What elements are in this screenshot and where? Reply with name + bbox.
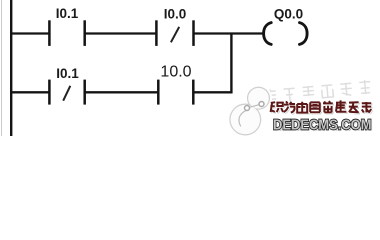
svg-text:I0.1: I0.1	[56, 66, 79, 81]
left power rail	[10, 0, 12, 136]
wire rung1 segment rail to I0.1	[10, 32, 49, 34]
label 10.0 rung2	[160, 63, 191, 80]
label I0.1 rung2	[56, 66, 79, 81]
contact I0.1 (NO) rung1	[49, 20, 84, 46]
wire rung2 segment I0.1 to 10.0	[86, 91, 159, 93]
svg-text:10.0: 10.0	[160, 63, 191, 80]
label I0.1 rung1	[56, 6, 79, 21]
contact I0.1 (NC) rung2	[49, 80, 84, 105]
svg-text:I0.1: I0.1	[56, 6, 79, 21]
scan edge line	[1, 0, 3, 136]
coil Q0.0	[264, 23, 308, 45]
wire rung2 segment 10.0 to branch	[194, 91, 233, 93]
wire rung2 segment rail to I0.1	[10, 91, 49, 93]
watermark grey text electronics	[264, 80, 371, 104]
contact I0.0 (NC) rung1	[156, 20, 193, 46]
svg-text:Q0.0: Q0.0	[274, 6, 303, 21]
watermark text DEDECMS.COM	[273, 116, 373, 134]
svg-text:I0.0: I0.0	[164, 6, 187, 21]
label Q0.0	[274, 6, 303, 21]
branch vertical wire	[230, 33, 232, 94]
wire rung1 segment I0.1 to I0.0	[86, 32, 157, 34]
watermark dedecms logo	[229, 86, 271, 136]
wire rung1 segment I0.0 to coil	[195, 32, 264, 34]
label I0.0 rung1	[164, 6, 187, 21]
svg-text:DEDECMS.COM: DEDECMS.COM	[273, 116, 372, 133]
contact 10.0 (NO) rung2	[158, 80, 193, 105]
